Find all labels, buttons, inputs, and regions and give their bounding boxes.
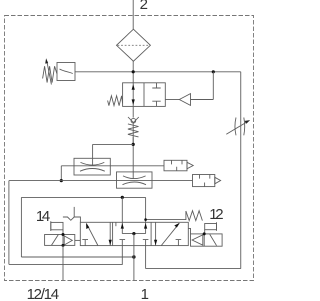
svg-text:1: 1	[141, 286, 149, 301]
svg-text:2: 2	[140, 0, 148, 13]
svg-text:12/14: 12/14	[27, 286, 60, 301]
svg-text:14: 14	[36, 208, 50, 225]
svg-text:12: 12	[209, 206, 223, 223]
